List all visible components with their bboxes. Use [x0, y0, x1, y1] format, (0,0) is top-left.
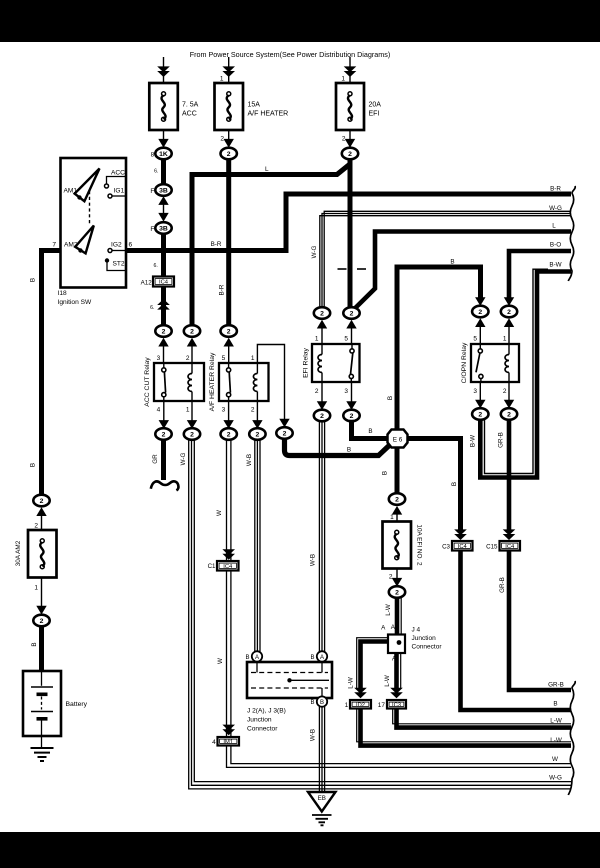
wire A/F pin2 down — [256, 401, 258, 424]
svg-text:B: B — [382, 471, 389, 475]
connector A/F pin3 lower — [221, 428, 237, 440]
wire B ignition AM2 to battery column — [42, 251, 61, 495]
fuse F2 15A A/F HEATER — [215, 83, 244, 130]
svg-text:2: 2 — [348, 151, 352, 158]
svg-text:Battery: Battery — [66, 701, 88, 708]
arrow into connector — [504, 318, 514, 327]
svg-text:2: 2 — [350, 310, 354, 317]
svg-text:W-B: W-B — [310, 554, 317, 566]
fuse F1 7.5A ACC — [149, 83, 178, 130]
svg-text:2: 2 — [507, 411, 511, 418]
svg-text:IG1: IG1 — [114, 188, 125, 195]
arrow into connector — [36, 606, 46, 615]
svg-text:6.: 6. — [150, 305, 154, 311]
wire W IM1 to right edge W bus (outline wire) — [227, 746, 572, 768]
ignition switch I18 — [61, 158, 127, 288]
wire ACC pin4 down — [163, 401, 165, 424]
svg-text:6.: 6. — [154, 169, 158, 175]
svg-text:W: W — [216, 510, 223, 516]
svg-text:2: 2 — [503, 388, 507, 395]
svg-text:7. 5A: 7. 5A — [182, 102, 199, 109]
wire EFI pin3 down — [351, 382, 353, 403]
svg-text:EB: EB — [318, 795, 326, 802]
svg-text:1: 1 — [34, 585, 38, 592]
wire B-R fuse2 to A/F heater relay — [226, 159, 231, 325]
arrow into IC4 from below — [157, 299, 170, 310]
connector C/OPN pin2 lower — [501, 408, 517, 420]
wire to A/F HEATER relay pin 5 — [228, 340, 230, 363]
EFI relay U3 — [312, 344, 360, 382]
wire EFI pin2 down — [321, 382, 323, 403]
arrow into connector fuse3 — [345, 139, 355, 148]
junction block 4 IM1 — [218, 737, 240, 746]
wire fuse down — [396, 569, 398, 581]
connector battery feed lower — [33, 615, 49, 627]
A/F HEATER relay — [219, 363, 269, 401]
svg-text:B: B — [320, 700, 324, 706]
ground EB — [308, 792, 336, 825]
arrow into connector — [346, 320, 356, 329]
wire W-B J2/J3 to ground EB (outline wire) — [318, 707, 320, 792]
svg-text:2: 2 — [40, 498, 44, 505]
wire L-W IC3 to right edge — [397, 709, 572, 728]
wire L-W outline companion — [393, 709, 571, 724]
svg-text:B: B — [245, 655, 249, 661]
arrow into ID2 — [354, 688, 367, 699]
wire from power source to fuse 3 — [349, 57, 351, 83]
connector 1K pin 8 — [155, 148, 171, 160]
wire connector to EFI pin5 — [351, 323, 353, 345]
svg-text:B: B — [553, 700, 557, 707]
svg-text:2: 2 — [162, 431, 166, 438]
svg-text:W-G: W-G — [311, 245, 318, 258]
wire B fuse3 down to EFI relay pin5 — [348, 159, 353, 307]
J2/J3 connector circle A right — [317, 651, 327, 661]
svg-text:W-G: W-G — [549, 205, 562, 212]
wire W-G ACC relay pin1 to bottom W-G bus (outline wire) — [189, 440, 571, 789]
wire fuse3 to connector — [349, 130, 351, 147]
wire W-G EFI relay pin1 to right edge (outline wire) — [320, 216, 571, 308]
svg-text:1: 1 — [220, 76, 224, 83]
junction block C1 IC4 — [217, 561, 239, 571]
svg-text:A: A — [320, 655, 324, 661]
svg-text:A: A — [255, 655, 259, 661]
svg-text:B: B — [30, 463, 37, 467]
svg-text:2: 2 — [190, 328, 194, 335]
arrow into connector — [346, 401, 356, 410]
arrow into connector — [36, 507, 46, 516]
wire B EFI relay pin3 to E6 — [352, 420, 391, 439]
svg-text:ST2: ST2 — [113, 261, 125, 268]
fuse F3 20A EFI — [336, 83, 364, 130]
svg-text:IC4: IC4 — [458, 544, 468, 550]
arrow into connector — [317, 401, 327, 410]
wire B from E6 up to C/OPN pin5 — [397, 267, 481, 430]
junction connector J2(A) J3(B) — [247, 662, 332, 698]
wire L-W ID2 to right edge — [361, 709, 572, 746]
svg-text:B: B — [310, 700, 314, 706]
arrow into 3B upper — [158, 196, 168, 205]
svg-text:2: 2 — [395, 589, 399, 596]
svg-text:3: 3 — [157, 355, 161, 362]
wire L-W J4 to IC3 — [394, 653, 399, 689]
svg-text:10A EFI NO. 2: 10A EFI NO. 2 — [416, 524, 423, 566]
svg-text:4: 4 — [157, 406, 161, 413]
wire B-W outline companion — [485, 269, 549, 473]
J2/J3 connector circle A left — [252, 651, 262, 661]
svg-text:B-R: B-R — [219, 284, 226, 295]
wire IC4 to connector — [161, 287, 166, 326]
junction block C3 IC4 — [452, 541, 473, 551]
wire W-B EFI relay pin2 to J2/J3 connector A (outline wire) — [318, 421, 320, 651]
page edge torn mark upper — [568, 186, 575, 281]
svg-text:ACC CUT Relay: ACC CUT Relay — [144, 357, 151, 407]
connector C/OPN pin5 upper — [472, 306, 488, 318]
svg-text:B: B — [30, 278, 37, 282]
svg-text:B: B — [347, 447, 351, 454]
connector EFI relay pin3 lower — [343, 410, 359, 422]
bottom letterbox bar — [0, 832, 600, 868]
connector 3B lower — [155, 222, 171, 234]
svg-text:B: B — [310, 655, 314, 661]
svg-text:ID2: ID2 — [356, 702, 365, 708]
arrow into connector — [392, 506, 402, 515]
svg-text:2: 2 — [507, 309, 511, 316]
svg-text:2: 2 — [320, 310, 324, 317]
wire ACC 3B to junction IC4 — [161, 234, 166, 277]
wire connector to EFI pin1 — [321, 323, 323, 345]
junction block 1 ID2 — [350, 700, 371, 709]
battery — [23, 671, 61, 748]
arrow into connector — [475, 318, 485, 327]
svg-text:IC4: IC4 — [159, 280, 169, 286]
wire L-W connector to J4 — [395, 598, 400, 635]
wire B-O right edge to C/OPN relay pin1 — [509, 251, 571, 299]
svg-text:GR-B: GR-B — [498, 432, 505, 448]
connector A/F pin2 lower — [249, 428, 265, 440]
svg-text:5: 5 — [222, 355, 226, 362]
svg-text:8: 8 — [151, 151, 155, 158]
svg-text:W-G: W-G — [180, 452, 187, 465]
svg-text:EFI: EFI — [369, 111, 380, 118]
svg-text:B-R: B-R — [550, 186, 561, 193]
svg-text:B: B — [451, 482, 458, 486]
wire ACC pin1 down — [191, 401, 193, 424]
svg-text:6: 6 — [129, 242, 133, 249]
arrow into connector — [279, 419, 289, 428]
svg-text:GR-B: GR-B — [499, 577, 506, 593]
svg-text:3B: 3B — [159, 225, 168, 232]
wire B E6 to C3 junction — [406, 439, 461, 531]
svg-text:4: 4 — [212, 739, 216, 746]
svg-text:GR-B: GR-B — [548, 681, 564, 688]
power source arrow fuse 1 — [157, 66, 170, 77]
svg-text:ACC: ACC — [182, 111, 197, 118]
wire L-W branch outline companion — [357, 638, 388, 689]
svg-text:W: W — [552, 756, 558, 763]
svg-text:2: 2 — [478, 309, 482, 316]
wire GR-B C/OPN pin2 down to C15 — [507, 420, 512, 531]
svg-text:2: 2 — [227, 151, 231, 158]
svg-text:1: 1 — [315, 335, 319, 342]
svg-text:7: 7 — [52, 242, 56, 249]
wire L-W outline companion — [400, 598, 402, 635]
svg-text:30A AM2: 30A AM2 — [15, 540, 22, 566]
connector A/F relay pin5 upper — [221, 325, 237, 337]
svg-text:15A: 15A — [248, 102, 261, 109]
svg-text:2: 2 — [283, 430, 287, 437]
junction block A12 IC4 — [153, 277, 174, 287]
svg-text:W-G: W-G — [549, 774, 562, 781]
wire to ACC CUT relay pin 2 — [191, 340, 193, 363]
wire fuse1 to connector 1K — [163, 130, 165, 147]
wire L fuse3 to ACC CUT relay pin 2 — [192, 159, 350, 326]
wire L-W outline companion — [400, 653, 402, 689]
svg-text:2: 2 — [256, 431, 260, 438]
power source arrow fuse 2 — [222, 66, 235, 77]
svg-text:L: L — [552, 223, 556, 230]
svg-text:1K: 1K — [159, 151, 168, 158]
connector ACC relay pin2 upper — [184, 325, 200, 337]
wire W C1 to IM1 (outline wire) — [226, 571, 228, 738]
connector ACC cut relay pin3 upper — [155, 325, 171, 337]
wire L-W outline companion — [357, 709, 571, 742]
svg-text:A12: A12 — [141, 280, 153, 287]
svg-text:EFI Relay: EFI Relay — [303, 347, 310, 377]
wire from power source to fuse 2 — [228, 57, 230, 83]
svg-text:C15: C15 — [486, 544, 498, 551]
svg-text:F: F — [150, 188, 154, 195]
wire GR from ACC pin4 — [161, 440, 166, 480]
svg-text:17: 17 — [378, 702, 386, 709]
svg-text:IC4: IC4 — [505, 544, 515, 550]
svg-text:2: 2 — [227, 328, 231, 335]
arrow into connector — [504, 400, 514, 409]
svg-text:IC3: IC3 — [392, 702, 401, 708]
arrow into connector B-O — [504, 297, 514, 306]
svg-text:W: W — [217, 658, 224, 664]
wire C/OPN pin3 down — [479, 382, 481, 402]
svg-text:B-W: B-W — [549, 262, 561, 269]
svg-text:2: 2 — [34, 523, 38, 530]
svg-text:2: 2 — [227, 431, 231, 438]
junction block 17 IC3 — [387, 700, 406, 709]
svg-text:2: 2 — [40, 618, 44, 625]
svg-text:3: 3 — [473, 388, 477, 395]
wire GR-B C15 to right edge bottom — [509, 551, 571, 691]
svg-text:6.: 6. — [153, 263, 157, 269]
svg-text:L-W: L-W — [348, 677, 355, 689]
arrow into IC3 — [390, 688, 403, 699]
arrow into C1 IC4 — [222, 549, 235, 560]
wire W A/F relay pin3 to C1 IC4 (outline wire) — [226, 440, 228, 561]
connector battery feed upper — [33, 495, 49, 507]
arrow into connector — [392, 578, 402, 587]
svg-text:L-W: L-W — [550, 737, 562, 744]
svg-text:B-R: B-R — [211, 241, 222, 248]
svg-text:2: 2 — [320, 413, 324, 420]
svg-text:1: 1 — [186, 406, 190, 413]
ACC CUT relay — [154, 363, 204, 401]
svg-text:IM1: IM1 — [223, 739, 233, 745]
wire ACC 1K to 3B — [161, 159, 166, 184]
svg-text:F: F — [150, 226, 154, 233]
svg-text:C/OPN Relay: C/OPN Relay — [461, 342, 468, 383]
arrow into connector — [475, 297, 485, 306]
arrow into connector — [158, 338, 168, 347]
connector fuse3 pin2 — [342, 148, 358, 160]
svg-text:2: 2 — [186, 355, 190, 362]
wire B E6 down to EFI NO.2 fuse — [395, 447, 400, 494]
wire B-R from ignition IG2 to right edge — [126, 194, 571, 251]
arrow into 3B lower — [158, 213, 168, 222]
svg-text:3: 3 — [222, 406, 226, 413]
svg-text:B: B — [368, 428, 372, 435]
wire connector to 30A fuse — [41, 511, 43, 531]
svg-text:Connector: Connector — [247, 726, 278, 733]
svg-text:1: 1 — [251, 355, 255, 362]
wire connector to C/OPN pin1 — [508, 321, 510, 344]
junction block C15 IC4 — [500, 541, 521, 551]
wire L-W J4 branch to ID2 — [361, 642, 389, 689]
svg-text:5: 5 — [344, 335, 348, 342]
svg-text:J 4: J 4 — [412, 627, 421, 634]
svg-text:3: 3 — [344, 388, 348, 395]
connector fuse2 pin2 — [221, 148, 237, 160]
svg-text:B: B — [450, 259, 454, 266]
svg-text:W-B: W-B — [310, 729, 317, 741]
svg-text:From Power Source System(See P: From Power Source System(See Power Distr… — [190, 50, 391, 59]
arrow into C15 IC4 — [503, 529, 516, 540]
J2/J3 connector circle B bottom — [317, 696, 327, 706]
wire B C3 to right edge bottom — [461, 551, 572, 711]
arrow into connector — [159, 420, 169, 429]
arrow into connector — [317, 320, 327, 329]
wire from power source to fuse 1 — [163, 57, 165, 83]
arrow into C3 IC4 — [454, 529, 467, 540]
svg-text:L-W: L-W — [384, 675, 391, 687]
connector ACC pin1 lower — [184, 428, 200, 440]
svg-text:I18: I18 — [58, 290, 67, 297]
svg-text:2: 2 — [190, 431, 194, 438]
svg-text:A/F HEATER Relay: A/F HEATER Relay — [209, 352, 216, 411]
svg-text:2: 2 — [389, 574, 393, 581]
svg-text:C1: C1 — [208, 563, 216, 570]
arrow into connector — [223, 420, 233, 429]
wire to ACC CUT relay pin 3 — [163, 340, 165, 363]
wire L bus EFI relay pin5 to right edge — [356, 232, 572, 308]
fuse 30A AM2 — [28, 530, 57, 578]
svg-text:1: 1 — [341, 76, 345, 83]
wire B-W C/OPN pin3 to right edge — [480, 272, 571, 478]
svg-text:Connector: Connector — [412, 644, 443, 651]
node E6 — [388, 430, 408, 448]
page edge torn mark lower — [568, 681, 575, 795]
svg-text:Ignition SW: Ignition SW — [58, 299, 92, 306]
arrow into connector — [187, 338, 197, 347]
svg-text:B-W: B-W — [470, 435, 477, 447]
svg-text:20A: 20A — [369, 102, 382, 109]
wire fuse2 to connector — [228, 130, 230, 147]
tick mark left — [338, 268, 347, 270]
fuse 10A EFI NO.2 — [383, 522, 412, 569]
connector EFI relay pin1 upper — [314, 307, 330, 319]
svg-text:A/F HEATER: A/F HEATER — [248, 111, 289, 118]
svg-text:IC4: IC4 — [223, 564, 233, 570]
svg-text:B-O: B-O — [550, 242, 561, 249]
wire connector to fuse — [396, 509, 398, 522]
svg-text:IG2: IG2 — [111, 242, 122, 249]
svg-text:2: 2 — [315, 388, 319, 395]
connector 3B upper — [155, 184, 171, 196]
connector A/F pin1 lower — [276, 427, 292, 439]
svg-text:AM1: AM1 — [64, 188, 78, 195]
svg-text:Junction: Junction — [412, 635, 437, 642]
wire B connector to battery — [39, 626, 44, 671]
battery ground — [31, 748, 54, 761]
svg-text:3B: 3B — [159, 187, 168, 194]
connector EFI NO.2 upper — [389, 493, 405, 505]
connector C/OPN pin3 lower — [472, 408, 488, 420]
arrow into connector — [187, 420, 197, 429]
wire W-B A/F relay pin2 to J2/J3 connector A (outline wire) — [254, 440, 256, 652]
wire fuse to connector — [41, 578, 43, 608]
arrow into connector fuse2 — [224, 139, 234, 148]
power source arrow fuse 3 — [344, 66, 357, 77]
svg-text:ACC: ACC — [111, 170, 125, 177]
svg-text:2: 2 — [478, 411, 482, 418]
svg-text:W-B: W-B — [246, 454, 253, 466]
wire A/F pin1 jump to connector — [257, 345, 284, 422]
C/OPN relay — [471, 344, 519, 382]
svg-text:C3: C3 — [442, 544, 450, 551]
svg-text:5: 5 — [473, 335, 477, 342]
svg-text:L-W: L-W — [550, 718, 562, 725]
connector EFI relay pin5 upper — [343, 307, 359, 319]
svg-text:2: 2 — [251, 406, 255, 413]
wire connector to C/OPN pin5 — [479, 321, 481, 344]
arrow into connector — [224, 338, 234, 347]
connector ACC pin4 lower — [155, 428, 171, 440]
svg-text:2: 2 — [395, 496, 399, 503]
wire A/F pin3 down — [228, 401, 230, 424]
svg-text:L-W: L-W — [385, 604, 392, 616]
svg-text:B: B — [387, 396, 394, 400]
svg-text:J 2(A), J 3(B): J 2(A), J 3(B) — [247, 708, 286, 715]
svg-text:L: L — [265, 166, 269, 173]
GR wire pigtail end — [151, 481, 179, 490]
tick mark right — [357, 268, 366, 270]
svg-text:2: 2 — [350, 413, 354, 420]
svg-text:Junction: Junction — [247, 717, 272, 724]
junction connector J4 — [388, 635, 405, 654]
arrow into 1K — [158, 139, 168, 148]
top letterbox bar — [0, 0, 600, 42]
svg-text:1: 1 — [503, 335, 507, 342]
svg-text:2: 2 — [162, 328, 166, 335]
connector EFI relay pin2 lower — [314, 410, 330, 422]
svg-text:B: B — [31, 642, 38, 646]
wire between 3B connectors — [163, 204, 165, 213]
wire B A/F relay pin1 to E6 — [285, 438, 394, 456]
connector C/OPN pin1 upper — [501, 306, 517, 318]
arrow into connector — [475, 400, 485, 409]
connector EFI NO.2 lower — [389, 586, 405, 598]
svg-text:1: 1 — [345, 702, 349, 709]
arrow into connector — [252, 420, 262, 429]
svg-text:AM2: AM2 — [64, 242, 78, 249]
arrow into IM1 — [222, 725, 235, 736]
